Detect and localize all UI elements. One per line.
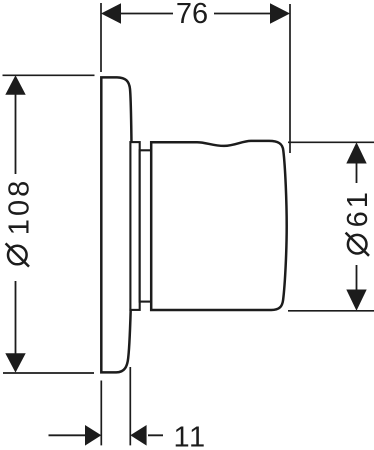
extension line right upper (y=142.3) — [288, 141, 374, 143]
dimension line 108 (left) — [15, 93, 17, 355]
arrowhead 108 up — [5, 75, 25, 95]
escutcheon plate (side view) — [101, 77, 132, 372]
svg-text:108: 108 — [4, 178, 36, 235]
dimension line 11 (bottom) — [49, 434, 164, 436]
sleeve ring recessed — [140, 150, 152, 301]
arrowhead 108 down — [5, 353, 25, 372]
arrowhead 11 left — [85, 425, 101, 446]
arrowhead 61 up — [346, 142, 366, 163]
knob handle — [151, 141, 287, 310]
svg-text:61: 61 — [342, 189, 374, 227]
dimension line 76 (top) — [120, 13, 271, 15]
label 108 diameter symbol — [6, 243, 29, 266]
extension line top-right (x=290) — [289, 4, 291, 153]
extension line right lower (y=310.8) — [288, 310, 374, 312]
extension line left lower (y=373) — [3, 372, 94, 374]
extension line top-left (x=101) — [100, 3, 102, 72]
extension line bottom outer (x=130.7) — [129, 367, 131, 445]
dimension line 61 (right) — [356, 161, 358, 291]
arrowhead 76 right — [270, 3, 290, 24]
extension line bottom inner (x=102) — [100, 381, 102, 446]
arrowhead 61 down — [346, 290, 366, 311]
extension line left upper (y=75) — [3, 74, 95, 76]
label 61 diameter symbol — [346, 233, 369, 256]
sleeve ring outer — [130, 142, 139, 310]
arrowhead 76 left — [101, 3, 121, 24]
svg-text:11: 11 — [174, 421, 207, 450]
svg-text:76: 76 — [176, 0, 208, 30]
arrowhead 11 right — [130, 425, 146, 446]
